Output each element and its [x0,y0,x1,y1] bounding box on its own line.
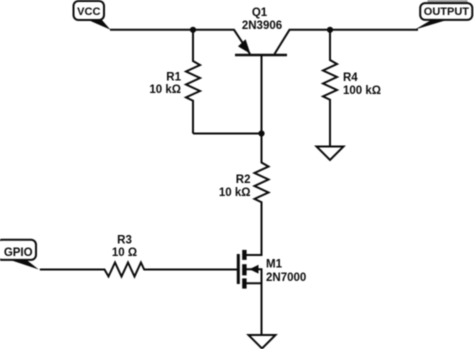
junction dot at base node [258,130,264,136]
resistor R2 10 kOhm [255,134,269,256]
junction dot at VCC/R1 [190,27,196,33]
svg-text:R1: R1 [166,71,181,83]
node OUTPUT flag [415,3,473,30]
svg-text:VCC: VCC [77,6,100,18]
transistor M1 2N7000 MOSFET [238,204,261,335]
transistor Q1 2N3906 [235,39,287,55]
svg-text:10 kΩ: 10 kΩ [149,84,181,96]
wire Q1 collector lead to OUTPUT segment [275,30,419,54]
svg-text:R2: R2 [236,174,251,186]
svg-text:M1: M1 [266,259,283,271]
resistor R4 100 kOhm [323,30,337,147]
wire base of Q1 down to node [261,56,263,134]
ground below M1 [249,335,276,349]
wire VCC rail left segment with Q1 emitter lead [110,30,250,54]
wire R1 bottom to base node [193,133,262,135]
svg-text:OUTPUT: OUTPUT [424,6,470,18]
node GPIO flag [0,240,39,270]
svg-text:10 kΩ: 10 kΩ [219,187,251,199]
crop artifact left of GPIO flag [0,242,2,259]
svg-text:2N3906: 2N3906 [242,20,282,32]
svg-text:Q1: Q1 [252,7,268,19]
wire GPIO lead, resistor R3 10 Ohm, wire to gate of M1 [40,263,237,277]
svg-text:R4: R4 [343,72,358,84]
crop artifact above OUTPUT flag [428,0,468,3]
junction dot at OUTPUT/R4 [327,27,333,33]
node VCC flag [74,1,111,30]
svg-text:10 Ω: 10 Ω [112,247,137,259]
ground below R4 [317,147,344,161]
svg-text:100 kΩ: 100 kΩ [343,85,381,97]
svg-text:R3: R3 [117,235,132,247]
svg-text:2N7000: 2N7000 [266,272,306,284]
resistor R1 10 kOhm [186,30,200,134]
svg-text:GPIO: GPIO [4,247,33,259]
